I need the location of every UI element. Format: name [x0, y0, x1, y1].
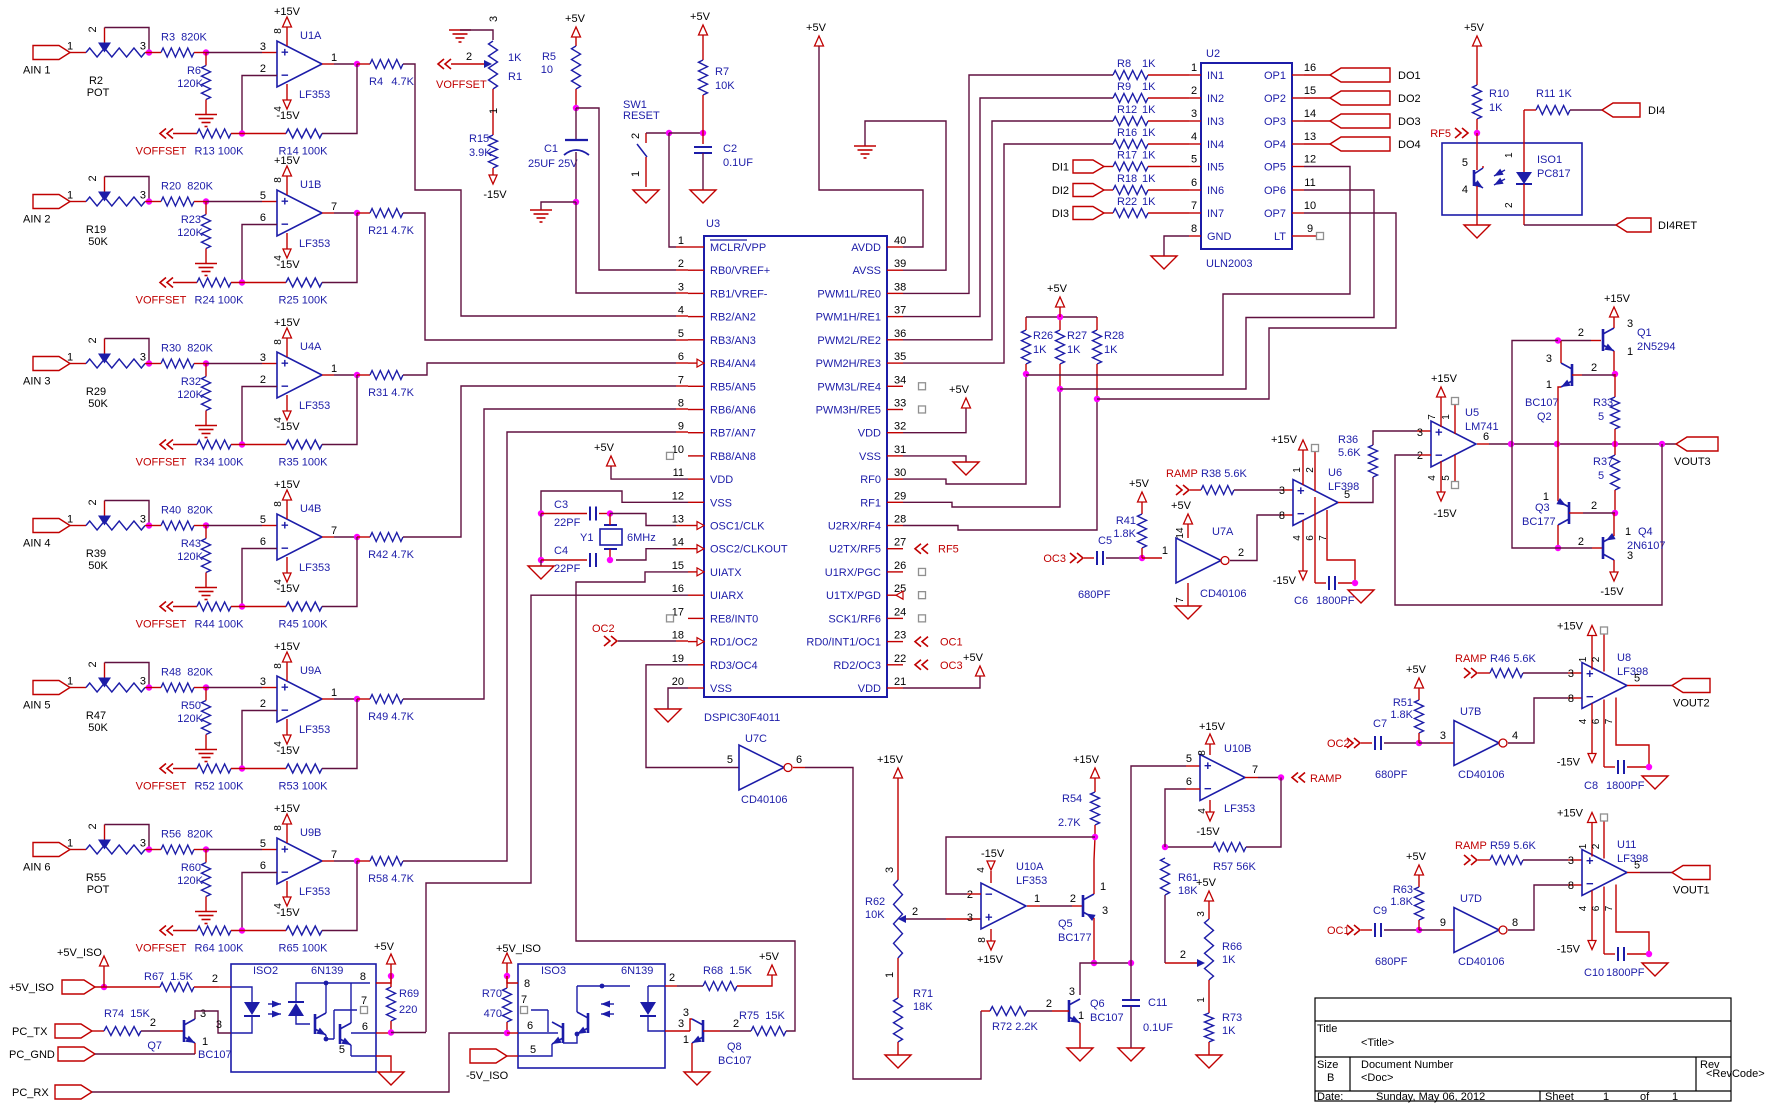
pin arrow 6 — [697, 359, 704, 367]
svg-text:R52 100K: R52 100K — [195, 781, 245, 793]
resistor R17 1K — [1113, 150, 1189, 172]
resistor R60 120K — [177, 850, 210, 912]
wire OP5 — [1026, 167, 1350, 376]
svg-text:1: 1 — [1100, 881, 1106, 893]
svg-text:OSC1/CLK: OSC1/CLK — [710, 521, 765, 533]
svg-text:8: 8 — [273, 825, 284, 831]
net label OC2 — [1327, 738, 1360, 750]
transistor ISO1 output — [1474, 133, 1483, 225]
svg-text:RESET: RESET — [623, 110, 660, 122]
svg-text:16: 16 — [672, 583, 684, 595]
junction — [573, 199, 579, 205]
op-amp U1B — [260, 179, 337, 250]
svg-text:R57 56K: R57 56K — [1213, 861, 1256, 873]
svg-text:120K: 120K — [177, 78, 203, 90]
power +15V — [273, 6, 301, 46]
wire VSS pin20 — [668, 688, 688, 709]
resistor R30 820K — [145, 343, 214, 369]
svg-text:2: 2 — [1070, 893, 1076, 905]
power +5V — [949, 384, 970, 408]
wire GND pin8 — [1164, 236, 1189, 256]
wire feedback — [322, 861, 357, 931]
pin arrow 15 — [697, 568, 704, 576]
svg-text:1K: 1K — [1222, 1025, 1236, 1037]
wire to Q6 — [1080, 963, 1094, 995]
resistor R63 1.8K — [1390, 851, 1426, 930]
power -15V U6 — [1273, 520, 1329, 587]
power +5V_ISO arrow — [57, 947, 109, 987]
svg-text:−: − — [281, 379, 289, 394]
pin arrow 13 — [697, 522, 704, 530]
net label VOFFSET — [136, 129, 197, 158]
wire PWM1L pin38 to R8 — [903, 75, 1113, 293]
ground — [655, 709, 681, 722]
svg-text:+5V: +5V — [963, 652, 984, 664]
op-amp U11 LF398 — [1568, 839, 1648, 896]
power +5V — [1196, 877, 1217, 919]
net label VOFFSET — [136, 926, 197, 955]
wire PWM2H pin35 to R16 — [903, 144, 1113, 363]
svg-text:OP3: OP3 — [1264, 116, 1286, 128]
svg-text:AIN 3: AIN 3 — [23, 376, 51, 388]
net label VOFFSET — [136, 440, 197, 469]
pin arrow 18 — [697, 638, 704, 646]
svg-text:7: 7 — [1427, 414, 1438, 420]
power -15V Q4 — [1600, 572, 1624, 598]
svg-text:RF5: RF5 — [1430, 128, 1451, 140]
svg-text:C11: C11 — [1148, 997, 1167, 1009]
svg-text:U7C: U7C — [745, 733, 767, 745]
svg-text:+15V: +15V — [274, 641, 301, 653]
wire C3C4 left — [540, 514, 542, 561]
wire U10A out to Q5 — [1027, 893, 1083, 906]
potentiometer R55 — [86, 823, 146, 896]
svg-text:3: 3 — [260, 352, 266, 364]
svg-text:2: 2 — [1180, 949, 1186, 961]
wire — [70, 849, 86, 851]
svg-text:IN2: IN2 — [1207, 93, 1224, 105]
resistor R27 1K — [1056, 317, 1088, 389]
power +15V — [273, 641, 301, 681]
svg-text:5: 5 — [1186, 753, 1192, 765]
wire output — [322, 536, 357, 538]
svg-text:U1TX/PGD: U1TX/PGD — [826, 590, 881, 602]
svg-text:2: 2 — [1591, 362, 1597, 374]
svg-text:OC2: OC2 — [592, 623, 615, 635]
svg-text:27: 27 — [894, 537, 906, 549]
wire RF0 pin30 — [903, 374, 1026, 484]
svg-text:R60: R60 — [181, 862, 201, 874]
svg-text:VDD: VDD — [710, 474, 733, 486]
ground — [1642, 963, 1668, 976]
junction — [388, 973, 394, 979]
svg-text:+15V: +15V — [877, 754, 904, 766]
svg-text:2: 2 — [1591, 500, 1597, 512]
svg-text:12: 12 — [672, 490, 684, 502]
resistor R43 120K — [177, 526, 210, 588]
svg-text:R20 820K: R20 820K — [161, 181, 214, 193]
svg-text:8: 8 — [1279, 510, 1285, 522]
svg-text:4: 4 — [273, 903, 284, 909]
svg-text:VOFFSET: VOFFSET — [136, 295, 187, 307]
svg-text:OC2: OC2 — [1327, 738, 1350, 750]
IC U3 DSPIC30F4011 — [672, 218, 907, 724]
wire C3 to OSC1 — [610, 514, 688, 526]
svg-text:2: 2 — [1504, 202, 1515, 208]
svg-text:PWM1H/RE1: PWM1H/RE1 — [816, 312, 881, 324]
capacitor C11 0.1UF — [1122, 963, 1173, 1048]
junction — [354, 61, 360, 67]
svg-text:+15V: +15V — [274, 479, 301, 491]
svg-text:50K: 50K — [88, 236, 108, 248]
svg-text:+15V: +15V — [977, 954, 1004, 966]
resistor R45 100K — [279, 602, 329, 631]
svg-text:R4: R4 — [369, 76, 383, 88]
svg-text:DI4: DI4 — [1648, 105, 1665, 117]
svg-text:DI3: DI3 — [1052, 208, 1069, 220]
svg-text:R39: R39 — [86, 548, 106, 560]
svg-text:R21 4.7K: R21 4.7K — [368, 225, 415, 237]
wire OP6 — [1060, 190, 1374, 389]
svg-text:4: 4 — [1427, 475, 1438, 481]
svg-text:R70: R70 — [482, 988, 502, 1000]
svg-text:UIARX: UIARX — [710, 590, 744, 602]
svg-text:2N5294: 2N5294 — [1637, 341, 1676, 353]
svg-text:R69: R69 — [399, 988, 419, 1000]
resistor R5 10 — [541, 46, 581, 108]
svg-text:32: 32 — [894, 421, 906, 433]
capacitor C8 1800PF — [1584, 700, 1649, 793]
wire output — [322, 374, 357, 376]
svg-text:+: + — [281, 842, 289, 857]
wire pot wiper loop — [105, 339, 150, 364]
junction — [146, 684, 152, 690]
svg-text:VOUT2: VOUT2 — [1673, 698, 1710, 710]
svg-text:680PF: 680PF — [1375, 769, 1408, 781]
svg-text:1K: 1K — [1222, 954, 1236, 966]
svg-text:8: 8 — [360, 971, 366, 983]
junction — [1092, 834, 1098, 840]
svg-text:7: 7 — [1175, 597, 1186, 603]
svg-text:RAMP: RAMP — [1455, 840, 1487, 852]
svg-text:1: 1 — [1672, 1091, 1678, 1103]
power +15V bottom — [977, 929, 1004, 966]
junction — [354, 534, 360, 540]
svg-text:5: 5 — [1634, 860, 1640, 872]
pin arrow 25 — [896, 591, 903, 599]
net label VOFFSET — [136, 278, 197, 307]
svg-text:-15V: -15V — [981, 848, 1005, 860]
svg-text:8: 8 — [273, 177, 284, 183]
svg-text:U1A: U1A — [300, 30, 322, 42]
wire PWM1H pin37 to R9 — [903, 98, 1113, 317]
svg-text:R48 820K: R48 820K — [161, 667, 214, 679]
svg-text:2: 2 — [1238, 547, 1244, 559]
wire C11 node to U10B + — [1131, 766, 1200, 963]
svg-text:PWM3L/RE4: PWM3L/RE4 — [817, 381, 881, 393]
svg-text:1: 1 — [67, 838, 73, 850]
resistor R48 820K — [145, 667, 214, 693]
port VOUT3 — [1674, 437, 1718, 468]
wire pin2 stub — [219, 986, 231, 988]
wire output — [322, 63, 357, 65]
svg-text:C5: C5 — [1098, 535, 1112, 547]
svg-text:50K: 50K — [88, 722, 108, 734]
inverter U7C CD40106 — [727, 733, 802, 806]
svg-text:R43: R43 — [181, 538, 201, 550]
svg-text:R16: R16 — [1117, 127, 1137, 139]
wire VSS pin12 — [541, 491, 688, 513]
svg-text:1: 1 — [1078, 1010, 1084, 1022]
junction — [607, 557, 613, 563]
svg-text:6: 6 — [1591, 905, 1602, 911]
junction — [1612, 510, 1618, 516]
junction — [573, 105, 579, 111]
svg-text:7: 7 — [678, 374, 684, 386]
svg-text:6: 6 — [796, 754, 802, 766]
wire pull-up rail — [1026, 316, 1097, 318]
wire RF4 pin28 — [903, 399, 1097, 530]
svg-text:+5V_ISO: +5V_ISO — [9, 982, 54, 994]
svg-text:R29: R29 — [86, 386, 106, 398]
svg-text:RB5/AN5: RB5/AN5 — [710, 381, 756, 393]
svg-text:R12: R12 — [1117, 104, 1137, 116]
svg-text:120K: 120K — [177, 713, 203, 725]
resistor R59 5.6K — [1478, 840, 1582, 865]
svg-text:AIN 1: AIN 1 — [23, 65, 51, 77]
svg-text:OC1: OC1 — [940, 637, 963, 649]
wire — [70, 687, 86, 689]
svg-text:8: 8 — [1197, 750, 1208, 756]
wire U8 pin7 — [1616, 698, 1649, 768]
resistor R31 4.7K — [357, 371, 415, 400]
svg-text:RB1/VREF-: RB1/VREF- — [710, 288, 768, 300]
svg-text:3: 3 — [683, 1007, 689, 1019]
svg-text:2: 2 — [1591, 656, 1602, 662]
port DO4 — [1304, 137, 1421, 151]
op-amp U5 LM741 — [1417, 407, 1499, 467]
port DI2 — [1052, 184, 1113, 198]
svg-text:RF0: RF0 — [860, 474, 881, 486]
svg-text:+15V: +15V — [274, 155, 301, 167]
svg-text:R51: R51 — [1393, 697, 1413, 709]
svg-text:+: + — [281, 45, 289, 60]
svg-text:LM741: LM741 — [1465, 421, 1499, 433]
wire U7D out — [1508, 885, 1582, 930]
svg-text:3: 3 — [140, 41, 146, 53]
svg-text:3: 3 — [140, 514, 146, 526]
svg-text:38: 38 — [894, 281, 906, 293]
no-connect pin 26 — [919, 568, 926, 575]
svg-text:4: 4 — [273, 579, 284, 585]
svg-text:8: 8 — [678, 397, 684, 409]
svg-text:22: 22 — [894, 653, 906, 665]
svg-text:8: 8 — [1568, 693, 1574, 705]
svg-text:7: 7 — [1252, 764, 1258, 776]
svg-text:-5V_ISO: -5V_ISO — [466, 1070, 509, 1082]
svg-text:1: 1 — [1578, 843, 1589, 849]
power -15V U8 — [1557, 704, 1615, 769]
wire U7A out to U6 pin8 — [1230, 515, 1293, 561]
wire Q4 base rail — [1512, 444, 1603, 548]
resistor R18 1K — [1113, 173, 1189, 195]
resistor R49 4.7K — [357, 695, 415, 724]
svg-text:1K: 1K — [1104, 344, 1118, 356]
net label RAMP — [1455, 840, 1487, 865]
svg-text:1: 1 — [1196, 997, 1207, 1003]
net label RAMP — [1292, 773, 1342, 786]
svg-text:C9: C9 — [1373, 905, 1387, 917]
svg-text:R23: R23 — [181, 214, 201, 226]
wire inverting input — [242, 549, 277, 607]
resistor R73 1K — [1196, 980, 1242, 1055]
wire inverting input — [242, 711, 277, 769]
junction — [1162, 844, 1168, 850]
wire AVSS pin39 to ground — [865, 121, 946, 270]
wire feedback — [322, 64, 357, 134]
svg-text:1: 1 — [884, 972, 896, 978]
svg-text:8: 8 — [1568, 880, 1574, 892]
svg-text:OP4: OP4 — [1264, 139, 1286, 151]
svg-text:+15V: +15V — [1199, 721, 1226, 733]
svg-text:3: 3 — [1196, 911, 1207, 917]
svg-text:R35 100K: R35 100K — [279, 457, 329, 469]
resistor R34 100K — [195, 440, 245, 469]
svg-text:U10B: U10B — [1224, 743, 1252, 755]
switch SW1 RESET — [623, 99, 660, 187]
ground — [195, 264, 217, 276]
wire feedback — [322, 537, 357, 607]
svg-text:R68 1.5K: R68 1.5K — [703, 965, 753, 977]
junction — [231, 603, 286, 609]
port AIN input AIN 6 — [23, 838, 73, 874]
svg-text:CD40106: CD40106 — [1200, 588, 1246, 600]
svg-text:RB8/AN8: RB8/AN8 — [710, 451, 756, 463]
svg-text:R62: R62 — [865, 896, 885, 908]
net label RF5 — [915, 544, 959, 556]
svg-text:PWM1L/RE0: PWM1L/RE0 — [817, 288, 881, 300]
svg-text:PWM2H/RE3: PWM2H/RE3 — [816, 358, 881, 370]
wire Q2 collector — [1560, 341, 1562, 363]
svg-text:11: 11 — [1304, 177, 1315, 189]
wire Q8 base — [703, 1018, 751, 1031]
svg-text:R27: R27 — [1067, 330, 1087, 342]
svg-text:+5V_ISO: +5V_ISO — [57, 947, 102, 959]
svg-text:B: B — [1327, 1072, 1334, 1084]
svg-text:VOFFSET: VOFFSET — [136, 146, 187, 158]
resistor R26 1K — [1022, 317, 1054, 374]
port DI4RET — [1616, 218, 1697, 232]
wire AIN3 stage to RB4 — [403, 363, 688, 375]
svg-text:CD40106: CD40106 — [1458, 769, 1504, 781]
port AIN input AIN 5 — [23, 676, 73, 712]
ground — [684, 1072, 710, 1085]
resistor R75 15K — [739, 1010, 786, 1036]
svg-text:+: + — [281, 356, 289, 371]
wire node to C2 — [669, 132, 703, 134]
svg-text:1K: 1K — [1489, 102, 1503, 114]
svg-text:1800PF: 1800PF — [1606, 780, 1645, 792]
svg-text:4: 4 — [1191, 131, 1197, 143]
junction — [203, 846, 209, 852]
power -15V — [273, 881, 300, 919]
junction — [1508, 441, 1665, 447]
svg-text:6: 6 — [1591, 718, 1602, 724]
svg-text:DI2: DI2 — [1052, 185, 1069, 197]
svg-text:R2: R2 — [89, 75, 103, 87]
svg-text:7: 7 — [331, 525, 337, 537]
svg-text:BC107: BC107 — [718, 1055, 752, 1067]
svg-text:R63: R63 — [1393, 884, 1413, 896]
svg-text:Y1: Y1 — [580, 532, 593, 544]
transistor Q1 2N5294 — [1603, 318, 1676, 358]
svg-text:3: 3 — [1191, 108, 1197, 120]
svg-text:R65 100K: R65 100K — [279, 943, 329, 955]
svg-text:+15V: +15V — [274, 803, 301, 815]
capacitor C9 680PF — [1361, 905, 1419, 968]
svg-text:PC817: PC817 — [1537, 168, 1571, 180]
svg-text:AIN 4: AIN 4 — [23, 538, 51, 550]
port PC_GND — [9, 1047, 195, 1061]
op-amp U4B — [260, 503, 337, 574]
svg-text:1: 1 — [678, 235, 684, 247]
svg-text:37: 37 — [894, 305, 906, 317]
svg-text:Q6: Q6 — [1090, 998, 1105, 1010]
svg-text:<Title>: <Title> — [1361, 1037, 1394, 1049]
svg-text:C6: C6 — [1294, 595, 1308, 607]
wire Q2 collector node — [1512, 341, 1558, 445]
svg-text:PC_GND: PC_GND — [9, 1049, 55, 1061]
svg-text:31: 31 — [894, 444, 906, 456]
resistor R54 2.7K — [1058, 754, 1100, 837]
wire output — [322, 212, 357, 214]
svg-text:1K: 1K — [1142, 150, 1156, 162]
wire feedback — [322, 213, 357, 283]
svg-text:21: 21 — [894, 676, 906, 688]
svg-text:4: 4 — [1578, 718, 1589, 724]
svg-text:1.8K: 1.8K — [1113, 528, 1136, 540]
svg-text:R41: R41 — [1116, 515, 1136, 527]
power +15V — [273, 479, 301, 519]
svg-text:R32: R32 — [181, 376, 201, 388]
svg-text:8: 8 — [1512, 917, 1518, 929]
svg-text:U6: U6 — [1328, 467, 1342, 479]
svg-text:R46 5.6K: R46 5.6K — [1490, 653, 1537, 665]
wire pin6 ISO3 — [507, 1020, 558, 1033]
svg-text:1K: 1K — [1142, 81, 1156, 93]
wire wiper R66 — [1165, 949, 1205, 967]
junction — [231, 279, 286, 285]
svg-text:5.6K: 5.6K — [1338, 447, 1361, 459]
junction — [1416, 740, 1422, 746]
port +5V_ISO — [9, 980, 95, 994]
svg-text:VSS: VSS — [859, 451, 881, 463]
power -15V — [273, 719, 300, 757]
svg-text:9: 9 — [1440, 917, 1446, 929]
svg-text:Title: Title — [1317, 1023, 1337, 1035]
resistor R72 2.2K — [981, 998, 1069, 1033]
resistor R70 470 — [482, 976, 512, 1033]
svg-text:1: 1 — [1504, 152, 1515, 158]
resistor R41 1.8K — [1113, 478, 1149, 558]
wire pin8 ISO3 — [507, 976, 530, 990]
svg-text:+5V: +5V — [759, 951, 780, 963]
svg-text:R24 100K: R24 100K — [195, 295, 245, 307]
svg-text:1K: 1K — [1142, 127, 1156, 139]
junction — [231, 765, 286, 771]
svg-text:470: 470 — [484, 1008, 502, 1020]
wire VDD pin11 to +5V — [611, 466, 688, 479]
